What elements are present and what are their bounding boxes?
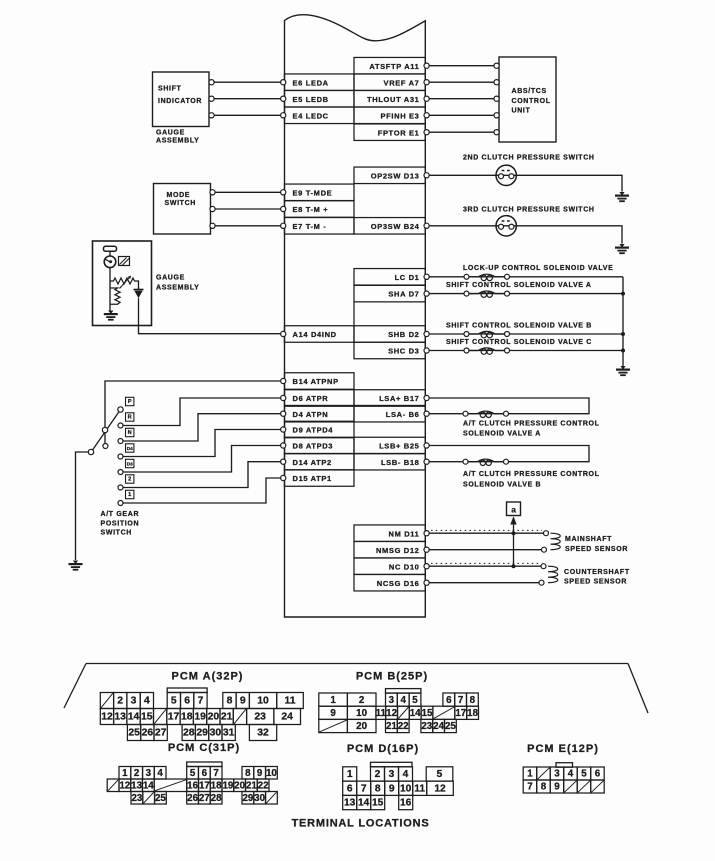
connector key tab PCM D <box>371 762 413 767</box>
svg-text:LSA- B6: LSA- B6 <box>386 410 420 419</box>
PCM C row2 cells 11-22 <box>107 779 269 792</box>
svg-text:PCM D(16P): PCM D(16P) <box>347 743 419 755</box>
countershaft speed sensor coil <box>548 566 558 583</box>
PCM C row3 cells 26-28 <box>187 792 222 805</box>
junction node shield NC / drain <box>512 564 516 568</box>
svg-text:13: 13 <box>114 712 126 723</box>
svg-text:22: 22 <box>398 721 409 732</box>
svg-text:PCM C(31P): PCM C(31P) <box>168 742 240 754</box>
svg-text:PFINH E3: PFINH E3 <box>381 111 420 120</box>
svg-text:9: 9 <box>554 782 560 793</box>
svg-text:10: 10 <box>257 696 269 707</box>
mode switch box <box>154 184 211 235</box>
junction node SHC/common <box>621 349 625 353</box>
svg-text:SPEED SENSOR: SPEED SENSOR <box>564 579 627 586</box>
wire OP3SW B24 to 3rd clutch switch and ground <box>429 226 622 244</box>
svg-text:12: 12 <box>386 708 397 719</box>
wire NMSG D12 <box>429 547 546 552</box>
pin box E4 LEDC (PCM left column) <box>281 107 354 124</box>
svg-text:31: 31 <box>223 728 235 739</box>
PCM A row1 cells 8-9 <box>223 693 250 709</box>
wire contact 1 to PCM <box>123 478 281 503</box>
svg-text:SHIFT: SHIFT <box>158 85 182 92</box>
svg-text:7: 7 <box>527 782 533 793</box>
PCM B row2 cells 9-18 <box>319 706 479 719</box>
svg-text:18: 18 <box>467 708 478 719</box>
wire OP2SW D13 to 2nd clutch switch and ground <box>429 175 622 191</box>
svg-text:D8 ATPD3: D8 ATPD3 <box>293 442 334 451</box>
svg-text:PCM B(25P): PCM B(25P) <box>356 670 428 682</box>
svg-text:E4 LEDC: E4 LEDC <box>293 111 329 120</box>
svg-text:5: 5 <box>190 768 196 779</box>
svg-text:a: a <box>511 504 516 514</box>
svg-text:SHIFT CONTROL SOLENOID VALVE C: SHIFT CONTROL SOLENOID VALVE C <box>446 339 592 346</box>
svg-text:ASSEMBLY: ASSEMBLY <box>156 284 199 291</box>
svg-text:4: 4 <box>403 769 409 780</box>
svg-text:ABS/TCS: ABS/TCS <box>512 88 547 95</box>
svg-text:27: 27 <box>199 793 210 804</box>
wire mode switch to PCM at y=225.8 <box>210 223 281 228</box>
svg-text:VREF A7: VREF A7 <box>384 78 420 87</box>
svg-text:9: 9 <box>240 696 246 707</box>
PCM D row1 cell 5 <box>426 767 453 781</box>
PCM E row2 cells 7-12 <box>523 780 604 793</box>
svg-text:13: 13 <box>344 798 356 809</box>
svg-text:NC D10: NC D10 <box>389 562 420 571</box>
pin box NMSG D12 (PCM right column) <box>354 541 429 558</box>
svg-text:16: 16 <box>187 781 198 792</box>
svg-text:20: 20 <box>234 781 245 792</box>
svg-text:17: 17 <box>455 708 466 719</box>
pin box ATSFTP A11 (PCM right column) <box>354 57 429 73</box>
wire resistor to diode <box>138 281 139 289</box>
wire B14 ATPNP to gear switch <box>105 381 281 427</box>
pin box D4 ATPN (PCM left column) <box>281 405 354 422</box>
svg-text:4: 4 <box>400 695 406 706</box>
wire PCM to ABS/TCS at y=82.2 <box>429 80 499 85</box>
pin box OP3SW B24 (PCM right column) <box>354 218 429 235</box>
wire contact D4 to PCM <box>123 430 281 457</box>
svg-text:23: 23 <box>421 721 432 732</box>
pin box OP2SW D13 (PCM right column) <box>354 167 429 184</box>
svg-text:11: 11 <box>285 696 296 707</box>
svg-text:NMSG D12: NMSG D12 <box>376 546 420 555</box>
pin box D14 ATP2 (PCM left column) <box>281 453 354 470</box>
svg-text:12: 12 <box>434 784 446 795</box>
svg-text:7: 7 <box>458 695 464 706</box>
svg-text:D14 ATP2: D14 ATP2 <box>293 458 332 467</box>
svg-text:PCM A(32P): PCM A(32P) <box>172 670 244 682</box>
svg-text:7: 7 <box>198 696 204 707</box>
svg-text:14: 14 <box>410 708 421 719</box>
svg-text:D4 ATPN: D4 ATPN <box>293 410 329 419</box>
svg-text:CONTROL: CONTROL <box>512 98 551 105</box>
svg-text:24: 24 <box>281 712 293 723</box>
svg-text:28: 28 <box>183 728 195 739</box>
shift indicator box (gauge assembly) <box>153 72 210 127</box>
wire contact R to PCM <box>123 398 281 426</box>
solenoid coil (SHIFT CONTROL SOLENOID VALVE B) <box>464 331 510 337</box>
svg-text:18: 18 <box>181 712 193 723</box>
svg-text:4: 4 <box>144 696 150 707</box>
svg-text:UNIT: UNIT <box>512 108 531 115</box>
PCM B row3 cells 21-22 <box>386 719 410 732</box>
svg-text:26: 26 <box>142 728 154 739</box>
svg-text:21: 21 <box>246 781 257 792</box>
PCM A row2 cells 12-24 <box>100 709 300 725</box>
gear position contact N <box>118 428 134 443</box>
gear position contact R <box>118 413 134 428</box>
pin box E6 LEDA (PCM left column) <box>281 74 354 91</box>
svg-text:2: 2 <box>359 695 365 706</box>
svg-text:15: 15 <box>141 712 153 723</box>
solenoid coil (SHIFT CONTROL SOLENOID VALVE C) <box>464 348 510 354</box>
svg-text:5: 5 <box>581 769 587 780</box>
pin box SHB D2 (PCM right column) <box>354 326 429 343</box>
svg-text:20: 20 <box>356 721 367 732</box>
svg-text:SHA D7: SHA D7 <box>388 290 419 299</box>
svg-text:D9 ATPD4: D9 ATPD4 <box>293 426 334 435</box>
PCM A row1 cells 1-4 <box>100 693 153 709</box>
svg-text:6: 6 <box>184 696 190 707</box>
svg-text:OP3SW B24: OP3SW B24 <box>371 222 420 231</box>
svg-text:29: 29 <box>242 793 253 804</box>
svg-text:SHIFT CONTROL SOLENOID VALVE B: SHIFT CONTROL SOLENOID VALVE B <box>446 322 592 329</box>
svg-text:12: 12 <box>119 781 130 792</box>
svg-text:17: 17 <box>168 712 180 723</box>
label COUNTERSHAFT SPEED SENSOR <box>564 569 630 586</box>
svg-text:POSITION: POSITION <box>101 521 140 528</box>
svg-text:8: 8 <box>375 784 381 795</box>
svg-text:SWITCH: SWITCH <box>101 530 133 537</box>
pin box LSA- B6 (PCM right column) <box>354 405 429 422</box>
svg-text:LSB- B18: LSB- B18 <box>381 458 420 467</box>
wire NM D11 (shielded) <box>429 530 548 535</box>
svg-text:D6 ATPR: D6 ATPR <box>293 394 329 403</box>
wire contact 2 to PCM <box>123 462 281 488</box>
pin box THLOUT A31 (PCM right column) <box>354 90 429 107</box>
svg-text:1: 1 <box>347 769 353 780</box>
svg-text:1: 1 <box>330 695 336 706</box>
vertical joiner between SHA D7 and SHB D2 label boxes <box>353 302 355 326</box>
svg-text:LSB+ B25: LSB+ B25 <box>379 442 419 451</box>
sensor box symbol beside lamp <box>119 257 130 266</box>
svg-text:A/T CLUTCH PRESSURE CONTROL: A/T CLUTCH PRESSURE CONTROL <box>463 420 600 427</box>
ground (A/T gear position switch) <box>69 561 83 570</box>
svg-text:30: 30 <box>254 793 265 804</box>
svg-text:D4: D4 <box>127 446 133 451</box>
wire mode switch to PCM at y=192.3 <box>210 190 281 195</box>
wire contact D3 to PCM <box>123 446 281 473</box>
svg-text:29: 29 <box>196 728 208 739</box>
junction node SHA/common <box>621 292 625 296</box>
svg-text:24: 24 <box>433 721 444 732</box>
svg-text:9: 9 <box>389 784 395 795</box>
svg-text:11: 11 <box>414 784 425 795</box>
solenoid coil (A/T clutch pressure control solenoid valve A) <box>463 411 509 417</box>
svg-text:13: 13 <box>131 781 142 792</box>
shield drain wire with arrow to box a <box>510 516 516 566</box>
gear position contact D3 <box>118 459 134 474</box>
pin box LC D1 (PCM right column) <box>354 269 429 286</box>
PCM B row3 cells 23-25 <box>421 719 456 732</box>
PCM A row1 cell 10 <box>249 693 276 709</box>
wire fuse to indicator lamp <box>109 251 111 256</box>
gear position contact D4 <box>118 444 134 459</box>
svg-text:E8 T-M +: E8 T-M + <box>293 205 329 214</box>
svg-text:D3: D3 <box>127 462 133 467</box>
svg-text:26: 26 <box>187 793 198 804</box>
svg-text:1: 1 <box>128 492 131 498</box>
PCM D row3 cells 13-15 <box>343 795 385 809</box>
gear position contact 1 <box>118 490 134 505</box>
wire lamp down to resistor node <box>109 268 111 281</box>
label A/T CLUTCH PRESSURE CONTROL SOLENOID VALVE A <box>463 420 600 437</box>
svg-text:25: 25 <box>445 721 456 732</box>
svg-text:16: 16 <box>400 798 412 809</box>
svg-text:9: 9 <box>257 768 263 779</box>
svg-text:3: 3 <box>146 768 152 779</box>
PCM C row3 cells 29-31 <box>242 792 277 805</box>
pin box A14 D4IND (PCM left column) <box>281 326 354 343</box>
svg-text:19: 19 <box>222 781 233 792</box>
svg-text:8: 8 <box>245 768 251 779</box>
svg-text:21: 21 <box>386 721 397 732</box>
PCM B row1 cells 1-2 <box>319 693 376 706</box>
PCM D row1 cell 1 <box>343 767 357 781</box>
svg-text:5: 5 <box>412 695 418 706</box>
svg-text:2: 2 <box>134 768 140 779</box>
svg-text:8: 8 <box>227 696 233 707</box>
svg-text:14: 14 <box>128 712 140 723</box>
wire diode down and out of gauge box to A14 D4IND <box>139 298 281 334</box>
PCM control module main box (torn-top outline) <box>285 15 426 617</box>
svg-text:P: P <box>128 399 132 405</box>
svg-text:5: 5 <box>171 696 177 707</box>
svg-text:LC D1: LC D1 <box>395 273 420 282</box>
PCM A row3 cells 25-27 <box>127 725 167 741</box>
wire shift indicator to PCM at y=115.3 <box>209 113 281 118</box>
svg-text:A/T CLUTCH PRESSURE CONTROL: A/T CLUTCH PRESSURE CONTROL <box>463 471 600 478</box>
pin box D15 ATP1 (PCM left column) <box>281 470 354 487</box>
svg-text:A/T GEAR: A/T GEAR <box>101 511 140 518</box>
svg-text:LSA+ B17: LSA+ B17 <box>379 394 419 403</box>
svg-text:27: 27 <box>155 728 167 739</box>
svg-text:12: 12 <box>101 712 113 723</box>
wire PCM to ABS/TCS at y=132.2 <box>429 130 499 135</box>
svg-text:23: 23 <box>131 793 142 804</box>
svg-text:7: 7 <box>361 784 367 795</box>
svg-text:23: 23 <box>254 712 266 723</box>
svg-text:E7 T-M -: E7 T-M - <box>293 222 327 231</box>
pin box LSB- B18 (PCM right column) <box>354 453 429 470</box>
PCM A row1 cells 5-7 <box>167 693 207 709</box>
gear position contact P <box>126 397 134 405</box>
svg-text:MODE: MODE <box>167 192 191 199</box>
pin box NM D11 (PCM right column) <box>354 525 429 542</box>
svg-text:6: 6 <box>446 695 452 706</box>
svg-text:LOCK-UP CONTROL SOLENOID VALVE: LOCK-UP CONTROL SOLENOID VALVE <box>463 265 613 272</box>
wire contact N to PCM <box>123 414 281 441</box>
svg-text:1: 1 <box>527 769 533 780</box>
svg-text:17: 17 <box>199 781 210 792</box>
variable resistor arrow <box>120 276 132 289</box>
ground (gauge assembly) <box>104 311 118 320</box>
svg-text:SHB D2: SHB D2 <box>388 330 419 339</box>
svg-text:SOLENOID VALVE A: SOLENOID VALVE A <box>463 431 541 438</box>
solenoid coil (LOCK-UP CONTROL SOLENOID VALVE) <box>464 274 510 280</box>
svg-text:FPTOR E1: FPTOR E1 <box>378 128 420 137</box>
svg-text:NM D11: NM D11 <box>389 529 420 538</box>
PCM B row1 cells 3-5 <box>386 693 421 706</box>
pin box D9 ATPD4 (PCM left column) <box>281 421 354 438</box>
svg-text:30: 30 <box>210 728 222 739</box>
2nd clutch pressure switch symbol <box>496 165 516 185</box>
svg-text:E5 LEDB: E5 LEDB <box>293 95 329 104</box>
left branch wire of gauge circuit <box>109 281 111 306</box>
PCM B row1 cells 6-8 <box>443 693 478 706</box>
pin box NCSG D16 (PCM right column) <box>354 574 429 591</box>
svg-text:4: 4 <box>157 768 163 779</box>
svg-text:SWITCH: SWITCH <box>165 200 197 207</box>
svg-text:3RD CLUTCH PRESSURE SWITCH: 3RD CLUTCH PRESSURE SWITCH <box>463 207 595 214</box>
svg-text:3: 3 <box>554 769 560 780</box>
svg-text:D15 ATP1: D15 ATP1 <box>293 474 332 483</box>
pin box D6 ATPR (PCM left column) <box>281 390 354 407</box>
svg-text:10: 10 <box>400 784 412 795</box>
svg-text:9: 9 <box>330 708 336 719</box>
svg-text:SOLENOID VALVE B: SOLENOID VALVE B <box>463 482 541 489</box>
svg-text:3: 3 <box>131 696 137 707</box>
svg-text:MAINSHAFT: MAINSHAFT <box>565 536 612 543</box>
shield terminal box a <box>507 502 521 516</box>
wire solenoid common to ground (vertical bus) <box>622 277 624 366</box>
PCM B row3 cells 19-20 <box>319 719 376 732</box>
pin box B14 ATPNP (PCM left column) <box>281 373 354 390</box>
svg-text:OP2SW D13: OP2SW D13 <box>371 171 420 180</box>
PCM C row1 cells 1-4 <box>119 767 166 780</box>
wire to gauge internal ground <box>109 306 111 311</box>
pin box NC D10 (PCM right column) <box>354 558 429 575</box>
PCM A row3 cells 28-31 <box>182 725 235 741</box>
svg-text:15: 15 <box>372 798 384 809</box>
svg-text:6: 6 <box>202 768 208 779</box>
pin box D8 ATPD3 (PCM left column) <box>281 437 354 454</box>
resistor R2 vertical <box>110 288 120 304</box>
wire PCM to ABS/TCS at y=98.7 <box>429 96 499 101</box>
label MAINSHAFT SPEED SENSOR <box>565 536 628 553</box>
svg-text:2: 2 <box>128 477 131 483</box>
svg-text:SHC D3: SHC D3 <box>388 347 419 356</box>
wire loop LSA+ B17 / LSA- B6 (A/T clutch pressure control solenoid valve A) <box>429 398 589 414</box>
svg-text:2: 2 <box>375 769 381 780</box>
fuse symbol in gauge assembly <box>104 246 117 251</box>
ABS/TCS control unit box <box>499 57 556 142</box>
svg-text:8: 8 <box>470 695 476 706</box>
PCM D row1 cells 2-4 <box>371 767 413 781</box>
wire LOCK-UP CONTROL SOLENOID VALVE <box>429 276 623 278</box>
PCM E row1 cells 1-6 <box>523 767 604 780</box>
wire gear switch common to ground <box>76 452 89 560</box>
svg-text:3: 3 <box>389 769 395 780</box>
solenoid coil (SHIFT CONTROL SOLENOID VALVE A) <box>464 291 510 297</box>
pin box LSA+ B17 (PCM right column) <box>354 390 429 407</box>
svg-text:25: 25 <box>128 728 140 739</box>
svg-text:E9 T-MDE: E9 T-MDE <box>293 188 333 197</box>
pin box VREF A7 (PCM right column) <box>354 74 429 91</box>
svg-text:10: 10 <box>266 768 277 779</box>
svg-text:A14 D4IND: A14 D4IND <box>293 330 337 339</box>
svg-text:4: 4 <box>568 769 574 780</box>
ground (3rd clutch pressure switch) <box>615 244 629 253</box>
svg-text:7: 7 <box>213 768 219 779</box>
pin box E8 T-M + (PCM left column) <box>281 201 354 218</box>
PCM D row3 cell 16 <box>399 795 413 809</box>
svg-text:22: 22 <box>258 781 269 792</box>
connector key tab PCM A <box>167 688 207 693</box>
wire PCM to ABS/TCS at y=65.7 <box>429 63 499 68</box>
gauge assembly box (D4 indicator circuit) <box>93 241 152 326</box>
wire SHIFT CONTROL SOLENOID VALVE C <box>429 350 623 352</box>
pin box SHC D3 (PCM right column) <box>354 342 429 359</box>
svg-text:1: 1 <box>122 768 128 779</box>
svg-text:28: 28 <box>211 793 222 804</box>
indicator lamp (gauge symbol) <box>104 256 116 268</box>
terminal panel outline (trapezoid) <box>64 664 648 714</box>
pin box FPTOR E1 (PCM right column) <box>354 124 429 141</box>
ground (shift solenoid valves) <box>616 366 630 375</box>
gear switch arm (P position) <box>88 407 123 455</box>
resistor R1 horizontal (variable) <box>110 278 138 284</box>
label GAUGE ASSEMBLY (top) <box>156 130 199 145</box>
PCM C row1 cells 5-7 <box>187 767 222 780</box>
svg-text:20: 20 <box>208 712 220 723</box>
svg-text:5: 5 <box>437 769 443 780</box>
svg-text:GAUGE: GAUGE <box>156 275 185 282</box>
ground (2nd clutch pressure switch) <box>615 192 629 201</box>
svg-text:B14 ATPNP: B14 ATPNP <box>293 377 339 386</box>
wire PCM to ABS/TCS at y=115.3 <box>429 113 499 118</box>
svg-text:6: 6 <box>347 784 353 795</box>
connector key tab PCM B <box>386 689 421 694</box>
wire shift indicator to PCM at y=98.7 <box>209 96 281 101</box>
svg-text:11: 11 <box>376 708 387 719</box>
PCM D row2 cells 6-12 <box>343 781 454 795</box>
svg-text:PCM E(12P): PCM E(12P) <box>527 743 599 755</box>
svg-text:ATSFTP A11: ATSFTP A11 <box>369 62 419 71</box>
gear position contact 2 <box>118 475 134 490</box>
svg-text:SHIFT CONTROL SOLENOID VALVE A: SHIFT CONTROL SOLENOID VALVE A <box>446 282 592 289</box>
label GAUGE ASSEMBLY (middle) <box>156 275 199 292</box>
svg-text:32: 32 <box>257 728 269 739</box>
svg-text:14: 14 <box>143 781 154 792</box>
connector key tab PCM E <box>556 763 573 768</box>
wire SHIFT CONTROL SOLENOID VALVE A <box>429 293 623 295</box>
svg-text:NCSG D16: NCSG D16 <box>377 579 420 588</box>
svg-text:N: N <box>128 430 132 436</box>
switch common stub and node <box>103 433 108 449</box>
pin box SHA D7 (PCM right column) <box>354 285 429 302</box>
label A/T GEAR POSITION SWITCH <box>101 511 140 537</box>
PCM A row1 cell 11 <box>277 693 304 709</box>
svg-text:18: 18 <box>211 781 222 792</box>
mainshaft speed sensor coil <box>551 533 561 550</box>
svg-text:19: 19 <box>194 712 206 723</box>
junction node shield NM / drain <box>512 531 516 535</box>
svg-text:15: 15 <box>422 708 433 719</box>
3rd clutch pressure switch symbol <box>496 216 516 236</box>
svg-text:E6 LEDA: E6 LEDA <box>293 78 329 87</box>
